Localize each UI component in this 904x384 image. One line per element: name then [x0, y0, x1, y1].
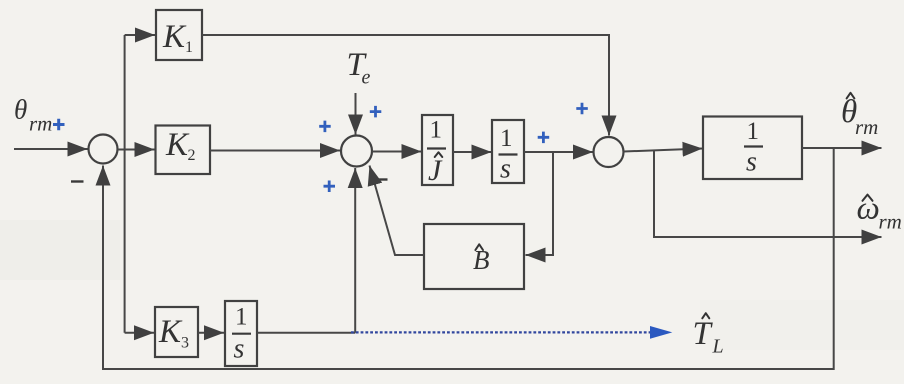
block B-hat — [424, 224, 524, 289]
node theta-hat_rm label — [841, 93, 878, 139]
wire: takeoff down from main line to B-hat input — [526, 152, 554, 255]
plus sign right of T_e arrow at S2 — [370, 106, 382, 118]
svg-text:s: s — [500, 154, 511, 185]
svg-text:s: s — [234, 334, 245, 365]
block K1 — [156, 10, 202, 60]
wire: S2 output to 1/J block — [372, 151, 422, 153]
svg-text:rm: rm — [879, 210, 902, 234]
svg-text:1: 1 — [500, 125, 513, 152]
block 1/J-hat — [422, 115, 453, 187]
plus sign below-left of S2 — [324, 181, 336, 193]
svg-text:1: 1 — [430, 117, 443, 144]
wire: branch into K3 — [125, 332, 154, 334]
wire: K2 output to summing junction S2 — [210, 150, 340, 152]
svg-text:K: K — [165, 127, 190, 163]
svg-text:rm: rm — [29, 112, 52, 136]
block K3 — [155, 307, 198, 357]
svg-text:1: 1 — [747, 118, 760, 145]
wire: 1/J to 1/s — [453, 151, 492, 153]
svg-text:1: 1 — [235, 304, 248, 331]
plus sign left of S2 — [319, 121, 331, 133]
summing junction S1 — [89, 135, 118, 164]
wire: S1 output to K2 — [118, 149, 155, 151]
wire: vertical up into S2 bottom — [354, 168, 356, 333]
wire: takeoff down to omega-hat_rm output — [654, 150, 882, 237]
block 1/s (output integrator) — [703, 117, 802, 180]
wire: dashed blue T-hat_L estimated load torque output — [351, 331, 650, 333]
minus sign at S1 feedback input — [71, 180, 84, 182]
wire: theta_rm input into summing junction S1 — [14, 148, 88, 150]
wire: K1 output across top and down into summing junction S3 — [202, 35, 609, 136]
wire: 1/s output to summing junction S3 — [524, 151, 593, 153]
summing junction S2 — [341, 136, 372, 167]
svg-text:T: T — [693, 316, 714, 352]
svg-text:1: 1 — [185, 39, 193, 56]
wire: B-hat output diagonal up into S2 — [370, 166, 425, 256]
blue arrowhead for T-hat_L — [650, 326, 672, 339]
svg-text:K: K — [162, 19, 187, 55]
wire: into K1 — [125, 34, 155, 36]
block 1/s (first integrator) — [492, 120, 524, 185]
wire: S3 output to output integrator — [624, 149, 703, 152]
block K2 — [156, 126, 211, 175]
wire: main feedback from theta output down, across bottom, up into S1 — [103, 148, 834, 369]
plus sign above-left of S3 for K1 input — [576, 103, 588, 115]
wire: T_e input down into S2 — [355, 93, 357, 135]
svg-text:e: e — [362, 67, 371, 89]
svg-text:3: 3 — [181, 335, 189, 352]
wire: bottom 1/s output right then up into S2 — [257, 332, 355, 334]
svg-text:s: s — [746, 147, 757, 178]
svg-text:θ: θ — [14, 95, 27, 125]
svg-text:L: L — [712, 336, 724, 358]
summing junction S3 — [594, 137, 624, 167]
svg-text:rm: rm — [855, 115, 878, 139]
wire: branch vertical from S1 output up to K1 and down to K3 — [124, 35, 126, 333]
svg-text:K: K — [158, 314, 183, 350]
plus sign on wire before S3 — [538, 132, 550, 144]
wire: output integrator to theta-hat_rm arrow — [802, 147, 882, 149]
node theta_rm label — [14, 95, 65, 136]
minus sign near B-hat feedback into S2 — [376, 178, 388, 180]
node omega-hat_rm label — [857, 191, 902, 234]
wire: K3 to bottom 1/s — [198, 332, 224, 334]
svg-text:J: J — [428, 154, 443, 187]
node T_e label — [347, 47, 371, 89]
node T-hat_L label — [693, 313, 724, 357]
block 1/s (load-torque integrator) — [225, 301, 257, 366]
svg-text:2: 2 — [188, 147, 196, 164]
